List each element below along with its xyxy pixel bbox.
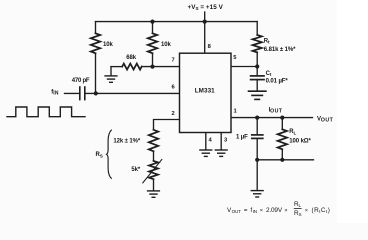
wire bottom ground stem [256, 160, 258, 191]
wire left 10k bottom lead to fin node [95, 53, 97, 93]
node pin1 / RL [280, 116, 284, 120]
wire Rt top lead [256, 22, 258, 35]
svg-text:RL: RL [289, 129, 296, 135]
resistor 10k right [148, 33, 157, 53]
wire pin6 lead [85, 92, 180, 94]
wire RL top lead [281, 118, 283, 130]
wire RL bottom lead [281, 149, 283, 160]
svg-text:10k: 10k [103, 42, 113, 48]
svg-text:+VS = +15 V: +VS = +15 V [188, 4, 224, 11]
resistor RL [278, 129, 287, 149]
svg-text:LM331: LM331 [195, 88, 215, 95]
capacitor 470pF plates [80, 87, 85, 100]
wire right 10k top lead [152, 22, 154, 34]
wire +Vs stem [204, 12, 206, 22]
capacitor 1uF plates [252, 135, 263, 139]
wire 5k ground stem [153, 179, 155, 191]
wire pin7 lead [142, 66, 180, 68]
op-amp U1 LM331 box [180, 53, 232, 132]
wire fin input lead [65, 92, 80, 94]
node 68k / 10k pin7 [150, 65, 154, 69]
svg-text:100 kΩ*: 100 kΩ* [289, 138, 311, 144]
wire 68k ground stem [110, 67, 112, 76]
wire 12k to 5k link [153, 151, 155, 161]
ground Ct [248, 91, 267, 99]
waveform fin square wave [7, 107, 85, 117]
wire 1uF bottom stem [256, 138, 258, 159]
svg-text:Rt: Rt [264, 38, 270, 44]
wire pin8 stem [204, 22, 206, 54]
node fin / 10k [94, 91, 98, 95]
wire pin3 stem [220, 133, 222, 150]
resistor 12k [149, 130, 158, 151]
ground pin4 [199, 150, 212, 156]
svg-text:68k: 68k [126, 55, 136, 61]
brace Rs [107, 130, 112, 179]
capacitor Ct plates [251, 76, 264, 80]
svg-text:2: 2 [172, 111, 175, 117]
svg-text:IOUT: IOUT [269, 107, 283, 114]
svg-text:10k: 10k [161, 42, 171, 48]
node pin5 / Rt Ct [255, 64, 259, 68]
resistor 10k left [91, 33, 100, 53]
ground pin3 [215, 150, 228, 156]
wire 68k left lead [111, 66, 122, 68]
wire Ct top stem [256, 67, 258, 75]
potentiometer 5k [149, 161, 158, 179]
ground bottom return [251, 191, 264, 197]
wire pin4 stem [205, 133, 207, 150]
node right 10k / supply rail [150, 20, 154, 24]
wire Ct ground stem [256, 80, 258, 91]
svg-text:RS: RS [96, 152, 103, 158]
wire pin5 lead [231, 66, 257, 68]
svg-text:fIN: fIN [51, 89, 59, 96]
formula fraction bar [294, 208, 302, 210]
wire pin1 output lead [231, 117, 313, 119]
resistor 68k [122, 64, 141, 70]
svg-text:Ct: Ct [266, 71, 272, 77]
svg-text:12k ± 1%*: 12k ± 1%* [113, 138, 141, 144]
wire pin2 lead [154, 120, 180, 130]
svg-text:0.01 µF*: 0.01 µF* [266, 78, 289, 84]
wire left 10k top lead [95, 22, 97, 34]
node Vs / pin8 [203, 20, 207, 24]
ground 68k [104, 76, 117, 82]
ground 5k [147, 191, 160, 197]
svg-text:6.81k ± 1%*: 6.81k ± 1%* [264, 47, 296, 53]
node bottom / 1uF [255, 158, 259, 162]
node pin1 / 1uF [255, 116, 259, 120]
potentiometer 5k arrow [143, 160, 162, 183]
wire right 10k bottom lead [152, 53, 154, 66]
svg-text:470 pF: 470 pF [72, 78, 90, 84]
wire Rt bottom lead [256, 52, 258, 66]
wire top supply rail [96, 21, 258, 23]
node bottom / RL [280, 158, 284, 162]
svg-text:1 µF: 1 µF [236, 134, 248, 140]
svg-text:5k*: 5k* [131, 167, 140, 173]
wire bottom return [257, 159, 313, 161]
svg-text:7: 7 [172, 58, 175, 64]
wire 1uF top stem [256, 118, 258, 134]
resistor Rt [253, 35, 262, 53]
